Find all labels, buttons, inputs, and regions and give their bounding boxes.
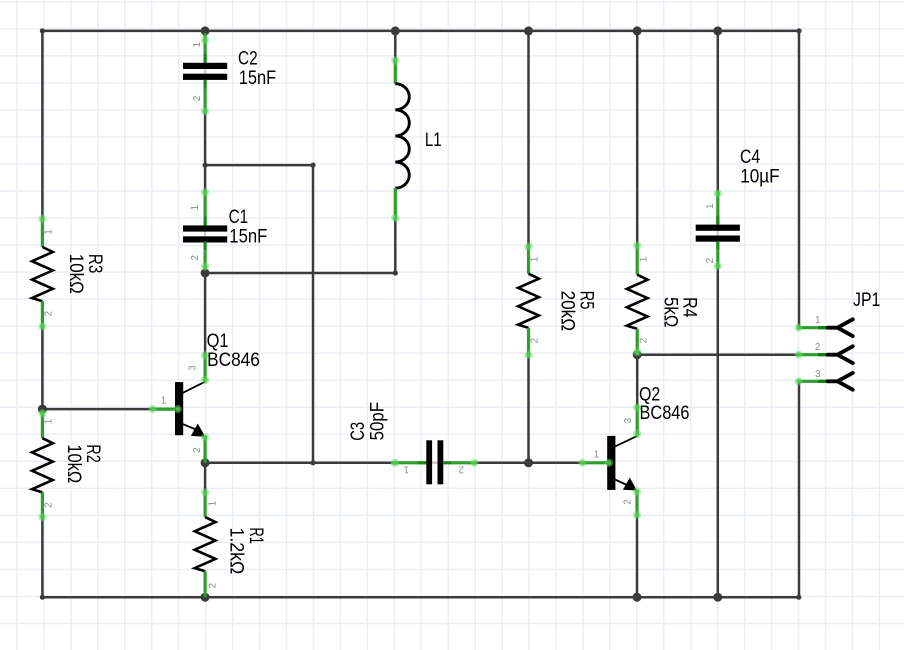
svg-text:1: 1: [190, 204, 201, 210]
svg-text:1: 1: [705, 203, 716, 209]
svg-text:1: 1: [530, 256, 541, 262]
svg-text:2: 2: [705, 258, 716, 264]
resistor R5 pin 2 lead: [527, 328, 530, 355]
transistor Q1 base lead (pin 1): [153, 408, 180, 411]
svg-text:R1: R1: [245, 528, 266, 544]
wire L1 pin1 stub: [394, 31, 397, 58]
junction top rail / L1: [391, 26, 400, 35]
resistor R1 pin 2 lead: [204, 571, 207, 597]
wire Q2 collector stub: [636, 355, 639, 406]
svg-text:15nF: 15nF: [239, 68, 276, 89]
transistor Q1 emitter lead (pin 2): [204, 436, 207, 463]
svg-text:15nF: 15nF: [229, 226, 267, 247]
transistor Q2 base bar: [607, 436, 615, 490]
resistor R4 pin 2 lead: [636, 329, 639, 355]
inductor L1 pin 1 lead: [394, 58, 397, 84]
wire left rail lower (R2 pin2 to ground rail): [41, 517, 44, 597]
node x313 end on emitter row: [310, 460, 315, 465]
transistor Q2 collector line: [615, 436, 637, 447]
svg-text:1: 1: [594, 449, 600, 460]
connector JP1 pin 3 symbol: [828, 373, 853, 390]
node corner top-right: [796, 28, 801, 33]
svg-text:2: 2: [44, 502, 55, 508]
resistor R1 pin 1 lead: [204, 491, 207, 517]
svg-text:2: 2: [815, 342, 821, 353]
transistor Q1 base bar: [175, 382, 183, 435]
svg-text:C4: C4: [740, 147, 760, 168]
wire R4 pin1 stub: [636, 31, 639, 246]
junction Q1 emitter / R1 / C3: [201, 458, 210, 467]
resistor R5 pin 1 lead: [527, 247, 530, 274]
svg-text:C2: C2: [238, 49, 258, 70]
resistor R2 pin 2 lead: [41, 492, 44, 517]
svg-text:1: 1: [44, 418, 55, 424]
junction C3 / R5 / Q2 base: [524, 458, 533, 467]
svg-text:2: 2: [190, 255, 201, 261]
wire Q2 emitter to ground rail: [636, 517, 639, 597]
svg-text:L1: L1: [425, 130, 442, 151]
node corner bottom-left: [40, 595, 45, 600]
svg-text:1: 1: [403, 464, 409, 475]
wire R5 node to Q2 base: [529, 462, 582, 465]
wire mid vertical x313 (C2 node to emitter row): [312, 165, 315, 463]
transistor Q2 emitter arrow: [623, 478, 637, 491]
svg-text:1: 1: [638, 256, 649, 262]
wire emitter row (Q1 emitter to C3 pin1): [205, 462, 391, 465]
node corner top-left: [40, 28, 45, 33]
svg-text:BC846: BC846: [640, 403, 690, 424]
svg-text:1: 1: [192, 41, 203, 47]
connector JP1 pin 1 lead: [798, 326, 828, 329]
svg-text:R4: R4: [679, 297, 700, 318]
wire R1 pin1 stub: [204, 463, 207, 491]
svg-text:JP1: JP1: [853, 290, 880, 311]
svg-text:1: 1: [161, 395, 167, 406]
transistor Q1 emitter arrow: [191, 424, 205, 437]
transistor Q2 emitter line: [615, 480, 628, 486]
node corner y273 right at L1: [393, 270, 398, 275]
svg-text:2: 2: [638, 338, 649, 344]
wire R4 node to JP1 pin2: [637, 353, 798, 356]
junction left rail / Q1 base / R2: [38, 405, 47, 414]
svg-text:1.2kΩ: 1.2kΩ: [226, 528, 247, 575]
capacitor C4 pin 2 lead: [716, 241, 719, 250]
wire left rail mid (R3 pin2 to base node): [41, 327, 44, 410]
connector JP1 pin 3 lead: [798, 380, 828, 383]
junction bottom rail / Q2 emitter: [633, 593, 642, 602]
capacitor C2 symbol plates: [204, 68, 206, 75]
wire Q1 collector stub: [204, 273, 207, 353]
svg-text:2: 2: [208, 583, 219, 589]
capacitor C2 pin 2 lead: [204, 80, 207, 89]
capacitor C3 pin 1 lead: [391, 461, 426, 464]
resistor R1 symbol zigzag: [195, 517, 216, 571]
capacitor C2 pin 1 lead: [204, 33, 207, 63]
resistor R4 pin 1 lead: [636, 246, 639, 275]
capacitor C3 pin 2 lead: [443, 461, 452, 464]
capacitor C1 pin 1 lead: [204, 191, 207, 226]
wire R5 pin2 stub: [527, 355, 530, 463]
svg-text:C1: C1: [229, 207, 249, 228]
wire L1 pin2 stub: [394, 220, 397, 273]
wire right rail to JP1 pin1: [798, 31, 801, 328]
svg-text:C3: C3: [348, 422, 369, 441]
resistor R2 pin 1 lead: [41, 411, 44, 438]
wire C1 pin1 stub: [204, 165, 207, 190]
wire JP1 pin3 to ground rail: [798, 381, 801, 597]
transistor Q2 collector lead (pin 3): [636, 405, 639, 436]
svg-text:3: 3: [188, 365, 199, 371]
wire C4 pin1 stub: [717, 31, 720, 192]
svg-text:BC846: BC846: [207, 350, 260, 371]
junction R4 / Q2 collector / JP1 pin2: [633, 350, 642, 359]
wire node row y165 (C2/C1 node): [205, 164, 313, 167]
junction top rail / C4: [713, 26, 722, 35]
svg-text:Q1: Q1: [207, 331, 229, 352]
junction bottom rail / C4: [713, 593, 722, 602]
wire Q1 base: [42, 408, 152, 411]
wire node row y273 (C1/L1/collector node): [205, 272, 395, 275]
svg-text:1: 1: [815, 315, 821, 326]
transistor Q2 emitter lead (pin 2): [635, 490, 638, 517]
resistor R5 symbol zigzag: [518, 274, 539, 328]
capacitor C1 pin 2 lead: [204, 242, 207, 251]
svg-text:10µF: 10µF: [740, 166, 779, 187]
transistor Q1 collector lead (pin 3): [204, 353, 207, 382]
svg-text:10kΩ: 10kΩ: [65, 254, 86, 294]
svg-text:3: 3: [623, 417, 634, 423]
svg-text:2: 2: [192, 447, 203, 453]
wire C4 pin2 to ground rail: [717, 269, 720, 598]
svg-text:1: 1: [44, 229, 55, 235]
junction node A: C1 / L1 / Q1 collector: [201, 269, 210, 278]
wire bottom rail (ground net): [42, 596, 798, 599]
connector JP1 pin 2 lead: [798, 353, 828, 356]
capacitor C1 symbol plates: [204, 230, 206, 237]
inductor L1 symbol coils: [395, 84, 409, 188]
resistor R3 pin 1 lead: [41, 219, 44, 247]
wire top rail (VCC net): [42, 30, 799, 33]
wire R5 pin1 stub: [527, 31, 530, 247]
transistor Q1 collector line: [183, 382, 205, 393]
resistor R3 pin 2 lead: [41, 301, 44, 326]
wire left rail upper (to R3 pin1): [41, 31, 44, 219]
svg-text:10kΩ: 10kΩ: [63, 444, 84, 483]
resistor R2 symbol zigzag: [32, 438, 53, 492]
transistor Q1 emitter line: [183, 424, 197, 430]
svg-text:R5: R5: [576, 291, 597, 310]
resistor R3 symbol zigzag: [32, 247, 53, 301]
svg-text:2: 2: [622, 499, 633, 505]
svg-text:50pF: 50pF: [368, 402, 389, 441]
connector JP1 pin 2 symbol: [828, 346, 853, 363]
svg-text:2: 2: [44, 311, 55, 317]
node corner y165 right: [310, 163, 315, 168]
capacitor C4 symbol plates: [717, 230, 719, 237]
svg-text:2: 2: [192, 96, 203, 102]
svg-text:5kΩ: 5kΩ: [659, 297, 680, 327]
junction top rail / R5: [524, 26, 533, 35]
junction top rail / C2: [201, 26, 210, 35]
svg-text:2: 2: [530, 338, 541, 344]
junction bottom rail / R1: [201, 593, 210, 602]
svg-text:2: 2: [458, 464, 464, 475]
capacitor C3 symbol plates: [432, 462, 437, 464]
node corner bottom-right: [796, 595, 801, 600]
wire C2 pin2 down to node row: [204, 114, 207, 166]
svg-text:R2: R2: [82, 444, 103, 462]
svg-text:1: 1: [208, 500, 219, 506]
node corner y165 left: [203, 163, 208, 168]
capacitor C4 pin 1 lead: [716, 191, 719, 224]
svg-text:3: 3: [815, 369, 821, 380]
connector JP1 pin 1 symbol: [828, 319, 853, 336]
svg-text:20kΩ: 20kΩ: [556, 291, 577, 331]
resistor R4 symbol zigzag: [627, 275, 648, 329]
svg-text:R3: R3: [84, 254, 105, 273]
junction top rail / R4: [633, 26, 642, 35]
wire C3 pin2 to R5 node: [476, 462, 529, 465]
inductor L1 pin 2 lead: [394, 188, 397, 220]
transistor Q2 base lead (pin 1): [581, 461, 612, 464]
